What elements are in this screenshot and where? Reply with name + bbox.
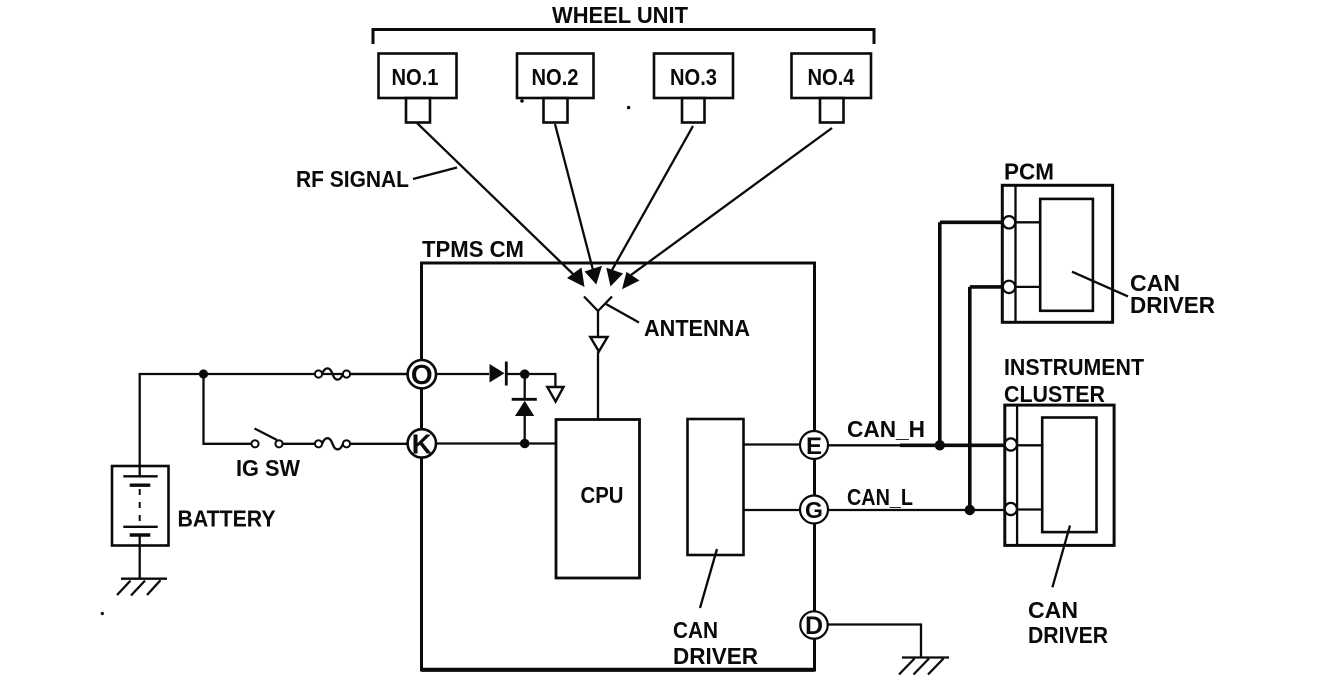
connector K <box>408 428 436 459</box>
wire O to diode <box>436 373 489 375</box>
svg-text:INSTRUMENT: INSTRUMENT <box>1004 354 1144 380</box>
wire PCM pin1 external <box>940 221 1003 225</box>
svg-text:DRIVER: DRIVER <box>1028 622 1108 648</box>
cluster pin CAN_L <box>1005 503 1017 515</box>
RF arrowhead 2 <box>585 266 603 285</box>
svg-text:NO.2: NO.2 <box>532 64 579 90</box>
wire junction down to zener <box>524 374 526 399</box>
svg-text:CAN_H: CAN_H <box>847 416 925 442</box>
RF arrowhead 1 <box>567 268 585 288</box>
INSTRUMENT CLUSTER label <box>1004 354 1144 407</box>
connector G <box>800 496 828 524</box>
wheel unit NO.2 box <box>517 54 594 99</box>
RF signal wire from NO.3 <box>612 126 693 270</box>
connector E <box>800 431 828 460</box>
cluster CAN DRIVER label <box>1028 597 1108 648</box>
RF arrowhead 3 <box>606 268 623 287</box>
svg-text:PCM: PCM <box>1004 159 1054 185</box>
wire switch to fuse <box>283 443 316 445</box>
CPU box <box>556 420 640 579</box>
noise speck <box>101 612 104 615</box>
wire diode to junction <box>508 373 541 375</box>
wire battery to O (B+ feed) <box>140 374 408 476</box>
svg-text:O: O <box>411 359 433 390</box>
wire K to CPU <box>436 442 556 444</box>
TPMS CM box <box>422 263 815 670</box>
PCM pin CAN_H <box>1003 216 1015 228</box>
cluster CAN DRIVER pointer <box>1052 526 1070 588</box>
RF arrowhead 4 <box>622 272 640 289</box>
junction dot CAN_H / PCM <box>935 440 945 450</box>
RF signal wire from NO.2 <box>555 124 593 270</box>
PCM box <box>1002 185 1112 322</box>
instrument cluster box <box>1005 405 1114 545</box>
svg-text:NO.3: NO.3 <box>670 64 717 90</box>
wire fuse to K <box>350 443 408 445</box>
CAN driver box (TPMS) <box>688 419 744 555</box>
wire CAN driver to E <box>744 443 801 445</box>
NO.3 connector stub <box>682 98 705 123</box>
PCM connector strip <box>1014 187 1016 322</box>
ANTENNA pointer line <box>606 304 639 323</box>
svg-text:ANTENNA: ANTENNA <box>644 315 750 341</box>
svg-text:CAN_L: CAN_L <box>847 484 913 510</box>
svg-text:NO.1: NO.1 <box>392 64 439 90</box>
PCM pin CAN_L <box>1003 281 1015 293</box>
svg-text:NO.4: NO.4 <box>808 64 855 90</box>
wire cluster pin1 to driver <box>1017 444 1042 446</box>
wheel unit NO.3 box <box>654 54 733 99</box>
PCM CAN_H riser <box>938 222 942 445</box>
wire D to ground <box>828 625 922 658</box>
svg-text:DRIVER: DRIVER <box>673 643 758 669</box>
fuse on O wire <box>315 368 350 379</box>
CAN_L wire <box>828 509 1005 511</box>
RF SIGNAL pointer line <box>413 168 457 180</box>
diode D1 (series, horizontal) <box>490 362 507 386</box>
PCM CAN driver box <box>1040 199 1093 311</box>
battery <box>112 466 169 546</box>
RF signal wire from NO.4 <box>631 128 832 275</box>
CAN DRIVER (TPMS) label <box>673 617 758 669</box>
wire branch down to IG SW <box>204 374 252 444</box>
noise speck <box>520 99 524 103</box>
svg-text:CAN: CAN <box>1028 597 1078 623</box>
svg-text:K: K <box>412 428 432 459</box>
wire zener to K wire <box>524 414 526 444</box>
NO.2 connector stub <box>544 98 568 123</box>
junction dot after D1 <box>520 369 530 379</box>
TPMS ground <box>899 658 949 675</box>
CAN_H wire <box>828 444 902 446</box>
svg-text:G: G <box>805 497 823 523</box>
wire cluster pin2 to driver <box>1017 508 1042 510</box>
wire fuse to O <box>350 373 408 375</box>
wheel unit bracket <box>373 30 874 45</box>
wheel unit NO.4 box <box>792 54 872 99</box>
noise speck <box>627 106 630 109</box>
connector O <box>408 359 436 390</box>
RF signal wire from NO.1 <box>417 123 574 275</box>
wire battery to ground <box>139 536 141 579</box>
cluster connector strip <box>1016 407 1018 545</box>
open arrow (power tap) <box>547 387 563 402</box>
junction dot B+ branch <box>199 369 208 378</box>
fuse on K wire <box>315 438 350 449</box>
svg-text:CPU: CPU <box>581 482 624 508</box>
cluster pin CAN_H <box>1005 438 1017 450</box>
CAN DRIVER (TPMS) pointer <box>700 549 717 608</box>
antenna <box>584 297 612 420</box>
NO.4 connector stub <box>820 98 844 123</box>
diode D2 (shunt, vertical) <box>512 399 537 416</box>
junction dot CAN_L / PCM <box>965 505 975 515</box>
wire PCM pin2 external <box>970 285 1003 289</box>
svg-text:DRIVER: DRIVER <box>1130 292 1215 318</box>
svg-text:RF SIGNAL: RF SIGNAL <box>296 166 409 192</box>
svg-text:IG SW: IG SW <box>236 455 300 481</box>
connector D <box>800 611 827 640</box>
PCM CAN_L riser <box>968 287 972 510</box>
wire to down-arrow tap <box>540 374 555 387</box>
PCM CAN DRIVER label <box>1130 270 1215 318</box>
wire PCM pin1 to driver <box>1016 221 1040 223</box>
svg-text:TPMS CM: TPMS CM <box>422 236 524 262</box>
svg-text:D: D <box>805 612 823 640</box>
wire CAN driver to G <box>744 509 801 511</box>
wheel unit NO.1 box <box>379 54 457 99</box>
IG switch <box>251 429 282 448</box>
svg-text:E: E <box>806 433 822 460</box>
NO.1 connector stub <box>406 98 430 123</box>
junction dot on K wire <box>520 439 530 449</box>
wire PCM pin2 to driver <box>1016 286 1040 288</box>
svg-text:WHEEL UNIT: WHEEL UNIT <box>552 2 688 28</box>
PCM CAN DRIVER pointer <box>1072 272 1128 297</box>
svg-text:CLUSTER: CLUSTER <box>1004 381 1105 407</box>
battery ground <box>117 579 167 596</box>
cluster CAN driver box <box>1042 418 1096 533</box>
svg-text:CAN: CAN <box>673 617 718 643</box>
svg-text:BATTERY: BATTERY <box>178 506 276 532</box>
